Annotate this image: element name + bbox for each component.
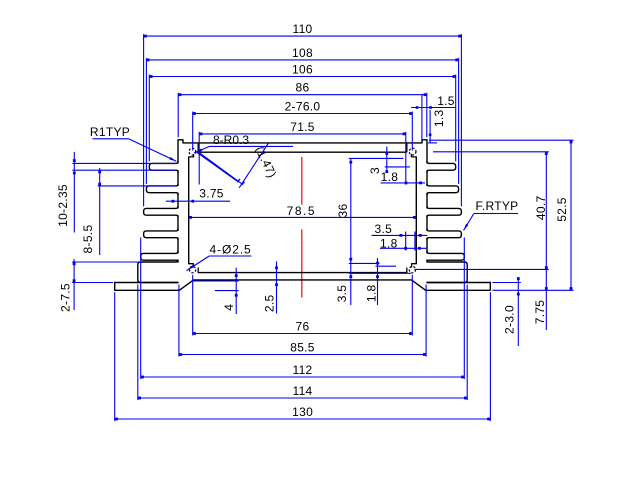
svg-text:78.5: 78.5 (287, 204, 316, 218)
svg-text:1.8: 1.8 (365, 284, 379, 302)
svg-text:52.5: 52.5 (555, 197, 569, 222)
svg-text:1.3: 1.3 (432, 109, 446, 127)
svg-text:40.7: 40.7 (534, 195, 548, 220)
svg-text:10-2.35: 10-2.35 (56, 184, 70, 227)
svg-text:85.5: 85.5 (290, 341, 315, 355)
svg-text:3.5: 3.5 (375, 222, 393, 236)
svg-text:71.5: 71.5 (290, 120, 315, 134)
svg-text:3.5: 3.5 (335, 285, 349, 303)
svg-text:2-7.5: 2-7.5 (58, 283, 72, 312)
svg-text:7.75: 7.75 (533, 300, 547, 325)
svg-text:1.5: 1.5 (437, 94, 455, 108)
svg-text:2-76.0: 2-76.0 (285, 100, 321, 114)
svg-text:4: 4 (222, 304, 236, 311)
svg-text:4-Ø2.5: 4-Ø2.5 (210, 242, 252, 256)
svg-text:8-5.5: 8-5.5 (81, 225, 95, 254)
svg-text:36: 36 (336, 204, 350, 218)
svg-text:114: 114 (292, 384, 312, 398)
svg-text:86: 86 (296, 81, 310, 95)
svg-text:110: 110 (292, 22, 312, 36)
svg-text:F.RTYP: F.RTYP (476, 199, 519, 213)
svg-text:106: 106 (292, 63, 313, 77)
svg-text:112: 112 (292, 363, 312, 377)
svg-text:8-R0.3: 8-R0.3 (213, 133, 249, 147)
svg-text:108: 108 (292, 46, 313, 60)
svg-text:R1TYP: R1TYP (90, 125, 130, 139)
svg-text:3.75: 3.75 (199, 187, 224, 201)
svg-text:2-3.0: 2-3.0 (503, 305, 517, 334)
svg-text:130: 130 (292, 405, 313, 419)
svg-text:2.5: 2.5 (263, 294, 277, 312)
svg-text:1.8: 1.8 (381, 170, 399, 184)
svg-text:76: 76 (296, 320, 310, 334)
